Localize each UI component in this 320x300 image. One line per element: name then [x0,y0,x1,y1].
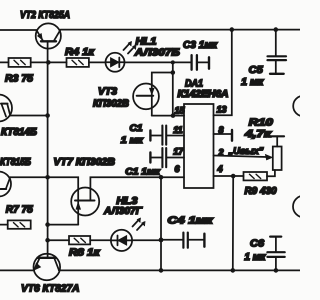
wire top positive rail [61,29,301,31]
svg-text:С6: С6 [250,239,264,250]
wire R7 left lead [0,224,8,226]
svg-text:КТ814Б: КТ814Б [1,127,37,138]
wire R8 to HL3 [90,239,111,241]
svg-text:1 мк: 1 мк [121,135,144,146]
transistor KT815B partial [0,172,11,197]
svg-text:С1 1мк: С1 1мк [125,166,160,176]
wire pin4 node down to rail [232,176,234,270]
node VT3 drain junction [171,70,176,75]
resistor R3 [9,58,31,67]
node R8 junction [45,238,50,243]
node rail pin4 column [231,268,236,273]
node C3 branch [171,60,175,64]
node rail C5 [274,27,279,32]
wire R3 left lead [0,61,9,63]
wire bottom rail left [0,269,34,271]
wiper arrow R10 [265,154,272,160]
transistor right arc bottom [293,196,315,218]
svg-text:С4 1мк: С4 1мк [168,216,214,227]
svg-text:17: 17 [173,146,184,156]
capacitor C1 pin 11 [150,126,184,145]
node pin15 junction [171,113,176,118]
wire VT7 gate lead [48,177,79,200]
capacitor C4 [161,233,204,248]
node rail C4 column [159,268,164,273]
capacitor C3 [192,55,209,69]
svg-text:„Uвых”: „Uвых” [228,146,264,157]
svg-text:К142ЕН6А: К142ЕН6А [178,89,229,100]
svg-text:АЛ307Г: АЛ307Г [103,206,143,217]
svg-text:VT2 КТ825А: VT2 КТ825А [20,9,70,21]
wire R9 to R10 [267,170,275,176]
node C4 junction [159,238,164,243]
wire KT814B to center column [10,115,48,117]
svg-text:R7 75: R7 75 [6,204,33,216]
op-amp regulator DA1 box [184,104,214,188]
svg-text:1 мк: 1 мк [241,77,264,88]
transistor VT2 [36,23,61,62]
wire pin 13 to top rail [214,30,232,116]
node R7 junction [45,222,50,227]
wire HL3 to C4 node [132,239,161,241]
node rail pin13 [230,27,235,32]
node rail C6 [274,268,279,273]
svg-text:13: 13 [217,105,227,115]
svg-text:R8 1к: R8 1к [69,247,101,258]
svg-text:VT3: VT3 [98,87,117,98]
wire VT7 source to R7 node [48,224,79,226]
svg-text:С3 1мк: С3 1мк [183,40,218,51]
resistor R8 [69,236,90,244]
wire VT3 source to pin 15 [152,115,184,117]
wire C4 column vertical [160,177,162,270]
svg-text:КТ815Б: КТ815Б [0,157,31,168]
capacitor C5 [268,30,287,74]
LED HL1 [106,41,137,71]
svg-text:1 мк: 1 мк [244,252,266,263]
wire R4 to HL1 [89,61,106,63]
transistor VT6 [34,254,61,281]
wire pin 2 wiper output [214,156,268,158]
transistor VT7 [71,188,99,225]
svg-text:R4 1к: R4 1к [65,46,95,58]
potentiometer R10 [270,136,284,170]
node VT7 gate junction [45,175,50,180]
svg-text:VT6 КТ827А: VT6 КТ827А [21,282,80,294]
resistor R7 [8,220,31,228]
svg-text:4: 4 [217,164,223,174]
wire HL1 to C3 node [124,61,190,63]
svg-text:R10: R10 [249,118,274,129]
wire R8 left lead [48,239,69,241]
svg-text:4,7к: 4,7к [244,129,273,140]
node pin4 junction [231,174,236,179]
resistor R4 [67,58,89,67]
wire bottom rail right [59,269,300,271]
transistor right arc top [293,96,313,116]
node pin 6 junction [159,175,164,180]
wire pin 4 [214,175,244,177]
wire top-left emitter VT2 [0,29,36,31]
svg-text:КП302В: КП302В [93,98,129,109]
svg-text:R9 430: R9 430 [245,186,277,197]
svg-text:HL1: HL1 [136,36,157,47]
transistor KT814B partial [0,95,12,122]
svg-text:VT7 КП302В: VT7 КП302В [54,157,116,168]
node KT814B junction [45,113,50,118]
capacitor pin 8 terminal [214,130,233,141]
transistor VT3 [133,84,159,116]
resistor R9 [244,172,268,180]
svg-text:R3 75: R3 75 [5,73,33,85]
capacitor C6 [267,237,284,271]
svg-text:С1: С1 [130,123,143,134]
wire pin 6 lead [161,176,184,178]
node base VT2 junction [46,60,51,65]
svg-text:15: 15 [175,105,186,115]
svg-text:АЛ307Б: АЛ307Б [134,47,180,58]
wire VT7 drain to pin 6 [90,177,161,200]
svg-text:DA1: DA1 [185,79,203,90]
wire center column vertical [47,62,49,257]
svg-text:11: 11 [173,125,182,135]
svg-text:С5: С5 [249,65,263,76]
wire R3 to R4 [31,61,67,63]
LED HL3 [111,218,145,251]
capacitor C2 pin 17 [150,148,184,167]
wire VT3 drain [152,73,173,84]
wire vertical VT3 branch [172,62,174,115]
wire KT815B to center column [10,176,48,178]
